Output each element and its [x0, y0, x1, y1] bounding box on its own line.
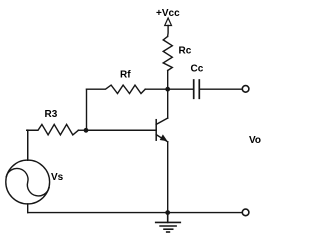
- svg-text:Rc: Rc: [179, 46, 192, 57]
- wire Rf left vertical: [86, 89, 88, 130]
- wire collector up to node: [167, 89, 169, 118]
- resistor Rf: [87, 85, 146, 93]
- wire capacitor to output terminal: [199, 88, 242, 90]
- wire emitter down to ground node: [167, 142, 169, 213]
- capacitor Cc: [194, 80, 200, 98]
- terminal output bottom: [242, 209, 249, 216]
- wire R3 left corner down: [27, 130, 29, 160]
- wire Rf to collector node: [145, 88, 168, 90]
- wire source top vertical: [27, 130, 29, 160]
- svg-text:Vs: Vs: [51, 172, 64, 183]
- svg-text:R3: R3: [45, 109, 58, 120]
- resistor R3: [27, 124, 79, 134]
- transistor Q1: [156, 118, 168, 142]
- ground: [156, 213, 181, 232]
- wire Vcc arrow to Rc: [167, 26, 170, 37]
- resistor Rc: [163, 37, 172, 71]
- source Vs sine wave: [6, 168, 49, 196]
- svg-text:Rf: Rf: [120, 70, 131, 81]
- wire bottom rail: [28, 212, 242, 214]
- svg-text:Vo: Vo: [249, 135, 261, 146]
- node collector junction: [165, 87, 170, 92]
- wire base junction to transistor base: [87, 129, 157, 131]
- terminal output top: [242, 86, 249, 93]
- wire source bottom vertical: [27, 204, 29, 213]
- wire node to capacitor: [168, 88, 194, 90]
- node base junction: [84, 128, 89, 133]
- svg-text:Cc: Cc: [191, 64, 204, 75]
- node ground junction: [165, 210, 170, 215]
- power symbol +Vcc arrow: [165, 18, 172, 26]
- source Vs circle: [6, 160, 50, 204]
- wire R3 to base junction: [78, 129, 86, 131]
- wire Rc to collector node: [167, 71, 169, 90]
